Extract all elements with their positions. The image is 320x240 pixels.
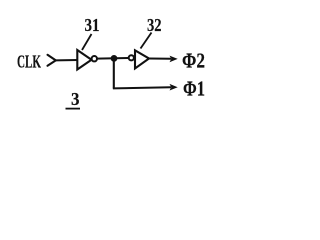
- wire CLK to inverter 31: [55, 59, 77, 61]
- buffer U32 input bubble: [129, 55, 134, 60]
- svg-text:3: 3: [71, 89, 80, 109]
- wire bubble to junction to gate 32: [97, 57, 129, 60]
- junction node dot: [111, 55, 118, 62]
- buffer U32 triangle: [135, 50, 149, 68]
- svg-text:Φ1: Φ1: [183, 76, 205, 100]
- figure number underline: [66, 108, 81, 110]
- pointer line from 31 to inverter: [82, 34, 92, 50]
- svg-text:32: 32: [147, 15, 162, 35]
- inverter U31 output bubble: [92, 56, 97, 61]
- wire junction down: [113, 58, 115, 88]
- svg-text:31: 31: [85, 15, 100, 35]
- arrowhead PHI1: [170, 84, 178, 91]
- pointer line from 32 to buffer: [141, 33, 152, 49]
- wire down branch to PHI1 arrow: [113, 87, 171, 88]
- input pin chevron: [48, 55, 56, 66]
- svg-text:CLK: CLK: [17, 52, 41, 72]
- wire buffer output to PHI2 arrow: [149, 58, 171, 60]
- arrowhead PHI2: [170, 56, 178, 63]
- inverter U31 triangle: [77, 50, 91, 70]
- svg-text:Φ2: Φ2: [182, 48, 205, 72]
